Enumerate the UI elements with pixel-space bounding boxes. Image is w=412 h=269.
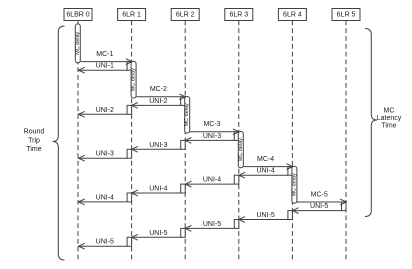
svg-text:MC: MC xyxy=(384,107,395,114)
UNI-3 departure jog at 6LR 3 xyxy=(234,132,239,141)
svg-text:Time: Time xyxy=(381,122,396,129)
label UNI-5 xyxy=(310,203,328,210)
svg-text:MC-5: MC-5 xyxy=(311,191,328,198)
svg-text:UNI-3: UNI-3 xyxy=(203,133,221,140)
svg-text:UNI-4: UNI-4 xyxy=(149,186,167,193)
svg-text:MC delay: MC delay xyxy=(131,68,137,91)
svg-text:MC delay: MC delay xyxy=(291,173,297,196)
label UNI-2 xyxy=(149,98,167,105)
svg-text:UNI-5: UNI-5 xyxy=(96,239,114,246)
node box 6LR 4 xyxy=(278,9,306,21)
label UNI-4 xyxy=(149,186,167,193)
message arrow UNI-5 (6LR 2 to 6LR 1) xyxy=(132,234,181,240)
lifeline 6LBR 0 xyxy=(77,21,79,261)
label MC-2 xyxy=(150,86,167,93)
label MC-3 xyxy=(203,121,220,128)
svg-text:Time: Time xyxy=(26,146,41,153)
message arrow UNI-4 (6LR 1 to 6LBR 0) xyxy=(79,199,128,205)
UNI-4 forwarding bar at 6LR 3 xyxy=(234,175,239,184)
UNI-2 departure jog at 6LR 2 xyxy=(181,97,186,106)
message arrow UNI-4 (6LR 2 to 6LR 1) xyxy=(132,190,181,196)
UNI-4 forwarding bar at 6LR 1 xyxy=(127,193,132,202)
lifeline 6LR 3 xyxy=(238,21,240,261)
svg-text:UNI-4: UNI-4 xyxy=(256,168,274,175)
message arrow UNI-4 (6LR 4 to 6LR 3) xyxy=(239,172,288,178)
message arrow MC-3 (6LR 2 to 6LR 3) xyxy=(190,129,239,135)
message arrow UNI-5 (6LR 1 to 6LBR 0) xyxy=(79,243,128,249)
message arrow UNI-3 (6LR 3 to 6LR 2) xyxy=(185,138,234,144)
node box 6LR 5 xyxy=(332,9,360,21)
svg-text:6LR 1: 6LR 1 xyxy=(122,11,141,18)
svg-text:MC delay: MC delay xyxy=(75,31,81,54)
label UNI-5 xyxy=(96,239,114,246)
lifeline 6LR 4 xyxy=(291,21,293,261)
message arrow MC-4 (6LR 3 to 6LR 4) xyxy=(243,164,292,170)
node box 6LR 2 xyxy=(171,9,199,21)
svg-text:6LR 3: 6LR 3 xyxy=(229,11,248,18)
label Round Trip Time xyxy=(24,129,45,153)
label MC-5 xyxy=(311,191,328,198)
lifeline 6LR 2 xyxy=(184,21,186,261)
UNI-1 departure jog at 6LR 1 xyxy=(127,62,132,71)
svg-text:UNI-5: UNI-5 xyxy=(203,221,221,228)
svg-text:MC-1: MC-1 xyxy=(96,51,113,58)
svg-text:MC-3: MC-3 xyxy=(203,121,220,128)
svg-text:MC delay: MC delay xyxy=(184,103,190,126)
lifeline 6LR 5 xyxy=(345,21,347,261)
message arrow MC-5 (6LR 4 to 6LR 5) xyxy=(297,199,346,205)
UNI-5 departure jog at 6LR 5 xyxy=(342,202,347,211)
message arrow UNI-1 (6LR 1 to 6LBR 0) xyxy=(79,67,128,73)
label UNI-5 xyxy=(256,212,274,219)
message arrow UNI-3 (6LR 2 to 6LR 1) xyxy=(132,146,181,152)
UNI-5 forwarding bar at 6LR 3 xyxy=(234,220,239,229)
activation bar "MC delay" at 6LR 3 xyxy=(238,132,244,168)
label UNI-4 xyxy=(96,194,114,201)
label UNI-1 xyxy=(96,63,114,70)
svg-text:MC delay: MC delay xyxy=(238,138,244,161)
message arrow MC-2 (6LR 1 to 6LR 2) xyxy=(136,94,185,100)
message arrow UNI-5 (6LR 4 to 6LR 3) xyxy=(239,217,288,223)
label UNI-4 xyxy=(203,177,221,184)
svg-text:6LR 2: 6LR 2 xyxy=(176,11,195,18)
UNI-5 forwarding bar at 6LR 1 xyxy=(127,237,132,246)
UNI-2 forwarding bar at 6LR 1 xyxy=(127,105,132,114)
svg-text:UNI-3: UNI-3 xyxy=(96,151,114,158)
node box 6LR 3 xyxy=(225,9,253,21)
svg-text:UNI-5: UNI-5 xyxy=(256,212,274,219)
label MC-4 xyxy=(257,156,274,163)
message arrow UNI-2 (6LR 1 to 6LBR 0) xyxy=(79,111,128,117)
svg-text:MC-2: MC-2 xyxy=(150,86,167,93)
label UNI-3 xyxy=(203,133,221,140)
label UNI-3 xyxy=(149,142,167,149)
label UNI-5 xyxy=(149,230,167,237)
label UNI-2 xyxy=(96,107,114,114)
svg-text:UNI-1: UNI-1 xyxy=(96,63,114,70)
label UNI-3 xyxy=(96,151,114,158)
label MC Latency Time xyxy=(377,107,402,129)
svg-text:Round: Round xyxy=(24,129,45,136)
svg-text:UNI-4: UNI-4 xyxy=(203,177,221,184)
message arrow UNI-2 (6LR 2 to 6LR 1) xyxy=(132,103,181,109)
bracket MC Latency Time xyxy=(365,29,377,217)
svg-text:Latency: Latency xyxy=(377,115,402,122)
activation bar "MC delay" at 6LR 2 xyxy=(184,97,190,134)
svg-text:UNI-5: UNI-5 xyxy=(149,230,167,237)
lifeline 6LR 1 xyxy=(131,21,133,261)
message arrow UNI-5 (6LR 5 to 6LR 4) xyxy=(292,208,341,214)
svg-text:UNI-5: UNI-5 xyxy=(310,203,328,210)
UNI-5 forwarding bar at 6LR 4 xyxy=(288,211,293,220)
message arrow MC-1 (6LBR 0 to 6LR 1) xyxy=(81,59,132,65)
label UNI-4 xyxy=(256,168,274,175)
svg-text:6LR 4: 6LR 4 xyxy=(283,11,302,18)
node box 6LR 1 xyxy=(118,9,146,21)
svg-text:MC-4: MC-4 xyxy=(257,156,274,163)
svg-text:Trip: Trip xyxy=(28,137,40,144)
UNI-3 forwarding bar at 6LR 2 xyxy=(181,140,186,149)
bracket Round Trip Time xyxy=(53,26,65,260)
svg-text:6LBR 0: 6LBR 0 xyxy=(66,11,89,18)
UNI-4 departure jog at 6LR 4 xyxy=(288,167,293,176)
svg-text:UNI-2: UNI-2 xyxy=(96,107,114,114)
activation bar "MC delay" at 6LR 1 xyxy=(131,61,137,98)
message arrow UNI-4 (6LR 3 to 6LR 2) xyxy=(185,181,234,187)
UNI-4 forwarding bar at 6LR 2 xyxy=(181,184,186,193)
UNI-3 forwarding bar at 6LR 1 xyxy=(127,149,132,158)
message arrow UNI-3 (6LR 1 to 6LBR 0) xyxy=(79,155,128,161)
svg-text:6LR 5: 6LR 5 xyxy=(337,11,356,18)
node box 6LBR 0 xyxy=(64,9,92,21)
label UNI-5 xyxy=(203,221,221,228)
svg-text:UNI-4: UNI-4 xyxy=(96,194,114,201)
UNI-5 forwarding bar at 6LR 2 xyxy=(181,228,186,237)
message arrow UNI-5 (6LR 3 to 6LR 2) xyxy=(185,226,234,232)
activation bar "MC delay" at 6LR 4 xyxy=(291,166,297,203)
label MC-1 xyxy=(96,51,113,58)
svg-text:UNI-2: UNI-2 xyxy=(149,98,167,105)
activation bar "MC delay" at 6LBR 0 xyxy=(75,24,81,63)
svg-text:UNI-3: UNI-3 xyxy=(149,142,167,149)
